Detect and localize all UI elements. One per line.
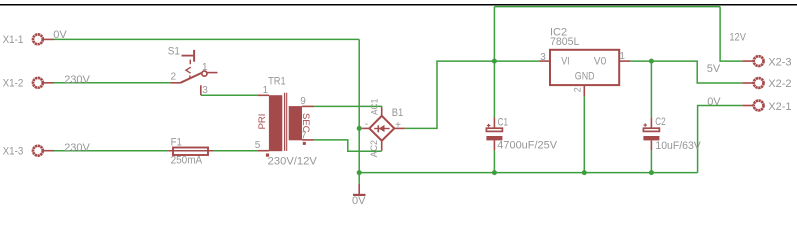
S1 contact circle [202, 71, 207, 76]
svg-text:10uF/63V: 10uF/63V [655, 140, 701, 152]
wire top 12V rail [494, 6, 720, 8]
wire TR1 pin7 to bridge AC2 [314, 140, 382, 151]
node C2 / ground rail junction [649, 170, 654, 175]
pin stub TR1 pin7 [302, 139, 314, 141]
svg-text:4700uF/25V: 4700uF/25V [497, 140, 557, 152]
svg-text:AC1: AC1 [370, 99, 381, 115]
TR1 primary polarity mark [266, 154, 269, 157]
C2 plus mark [644, 124, 647, 126]
transformer TR1 [255, 75, 318, 167]
pin stub TR1 pin5 [257, 150, 269, 152]
svg-text:V0: V0 [594, 56, 607, 68]
svg-text:1: 1 [263, 85, 269, 96]
svg-text:2: 2 [171, 72, 177, 83]
B1 inner diode [374, 128, 389, 130]
pin stub B1 minus [362, 127, 369, 129]
svg-text:250mA: 250mA [171, 155, 203, 167]
ground symbol 0V [352, 195, 366, 207]
node C1 / ground rail junction [492, 170, 497, 175]
capacitor C1 [486, 117, 557, 152]
wire switch pin3 to TR1 pin1 [201, 94, 257, 96]
S1 spring chevron [189, 60, 191, 65]
connector X1-1 [33, 34, 43, 44]
pin stub IC2 pin1 [619, 60, 630, 62]
svg-text:9: 9 [300, 96, 306, 107]
connector X2-2 [754, 78, 764, 88]
svg-text:0V: 0V [707, 96, 721, 108]
wire IC2 out to X2-2 [630, 61, 742, 83]
wire C1 upper vertical [493, 7, 495, 118]
pin stub X1-1 [44, 38, 54, 40]
TR1 secondary winding [289, 106, 302, 140]
wire 0V vertical [358, 39, 360, 184]
pin stub IC2 pin3 [539, 60, 550, 62]
pin stub S1 pin1 [207, 72, 217, 74]
svg-text:230V: 230V [64, 142, 90, 154]
svg-text:230V: 230V [64, 74, 90, 86]
svg-text:X2-1: X2-1 [768, 101, 791, 113]
pin stub X2-2 [742, 82, 753, 84]
svg-text:X2-3: X2-3 [768, 56, 791, 68]
svg-text:-: - [365, 119, 368, 130]
C1 plus mark [487, 125, 490, 127]
svg-text:2: 2 [572, 87, 582, 92]
wire net 0V from X1-1 [54, 7, 742, 184]
TR1 core lines [284, 93, 286, 151]
pin stub C2 top [650, 118, 652, 129]
node 0V/bridge minus junction [357, 126, 362, 131]
svg-text:AC2: AC2 [369, 140, 380, 157]
pin stub TR1 pin9 [302, 105, 314, 107]
connector X1-2 [33, 78, 43, 88]
red pin stubs [44, 39, 753, 194]
pin stub B1 AC1 [381, 107, 383, 116]
pin stub C2 bottom [650, 140, 652, 150]
svg-text:0V: 0V [53, 29, 67, 41]
svg-text:X2-2: X2-2 [768, 78, 791, 90]
svg-text:230V/12V: 230V/12V [268, 156, 318, 168]
wire X1-1 horizontal [54, 38, 359, 40]
wire fuse to TR1 pin5 [213, 150, 257, 152]
capacitor C2 [643, 116, 701, 152]
svg-text:5V: 5V [707, 63, 721, 75]
wire C1 lower vertical [493, 150, 495, 172]
svg-text:12V: 12V [729, 32, 746, 44]
svg-text:VI: VI [561, 56, 569, 68]
svg-text:C2: C2 [655, 116, 665, 128]
pin stub S1 pin3 [200, 85, 202, 95]
svg-text:GND: GND [575, 71, 595, 83]
junction dots [357, 59, 654, 176]
wire 12V drop to X2-3 [720, 7, 742, 62]
svg-text:X1-2: X1-2 [3, 78, 24, 90]
pin stub X1-3 [44, 150, 54, 152]
connector X1-3 [33, 146, 43, 156]
node IC2 gnd / ground rail junction [582, 170, 587, 175]
svg-text:7805L: 7805L [550, 36, 579, 48]
switch S1 [168, 45, 209, 96]
pin stub ground [358, 184, 360, 194]
pin stub C1 bottom [493, 140, 495, 150]
svg-text:1: 1 [202, 62, 208, 73]
wire C2 upper vertical [650, 61, 652, 118]
svg-text:TR1: TR1 [268, 75, 286, 87]
svg-text:X1-1: X1-1 [3, 34, 24, 46]
pin stub X2-3 [742, 60, 753, 62]
svg-text:F1: F1 [171, 136, 182, 148]
S1 lever [181, 73, 202, 83]
pin stub TR1 pin1 [257, 94, 269, 96]
wire bridge plus to IC2 VI [405, 61, 540, 128]
pin stub IC2 pin2 [583, 85, 585, 96]
svg-text:0V: 0V [352, 195, 366, 206]
voltage regulator IC2 [540, 27, 625, 93]
bridge rectifier B1 [365, 99, 404, 158]
svg-text:X1-3: X1-3 [3, 146, 24, 158]
pin stub X1-2 [44, 82, 54, 84]
frame border top [0, 4, 797, 6]
wire C2 lower vertical [650, 150, 652, 172]
wire 0V up to X2-1 [698, 106, 743, 173]
pin stub B1 AC2 [381, 141, 383, 151]
node 0V/ground rail junction [357, 170, 362, 175]
wire X1-2 to switch [54, 82, 170, 84]
node VI rail / C1 junction [492, 59, 497, 64]
svg-text:3: 3 [540, 52, 546, 63]
svg-text:5: 5 [255, 140, 261, 151]
svg-text:3: 3 [202, 85, 208, 96]
pin stub S1 pin2 [170, 82, 181, 84]
pin stub C1 top [493, 117, 495, 128]
wire IC2 gnd vertical [583, 96, 585, 172]
TR1 secondary polarity mark [303, 142, 306, 145]
svg-text:+: + [395, 120, 401, 131]
svg-text:PRI: PRI [257, 114, 268, 130]
svg-text:1: 1 [619, 51, 625, 62]
wire ground rail [359, 172, 697, 174]
svg-text:B1: B1 [392, 107, 404, 119]
svg-text:C1: C1 [498, 117, 508, 129]
node VO rail / C2 junction [649, 59, 654, 64]
svg-text:S1: S1 [168, 45, 180, 57]
S1 actuator tee [182, 55, 194, 57]
wire branch to bridge minus [359, 127, 362, 129]
svg-text:7: 7 [301, 131, 307, 142]
pin stub B1 plus [394, 127, 405, 129]
connector X2-1 [754, 101, 764, 111]
TR1 primary winding [269, 95, 282, 151]
fuse F1 [168, 136, 213, 166]
wire TR1 pin9 to bridge AC1 [314, 106, 382, 107]
connector X2-3 [754, 56, 764, 66]
pin stub X2-1 [742, 105, 753, 107]
wire X1-3 to fuse [54, 150, 168, 152]
